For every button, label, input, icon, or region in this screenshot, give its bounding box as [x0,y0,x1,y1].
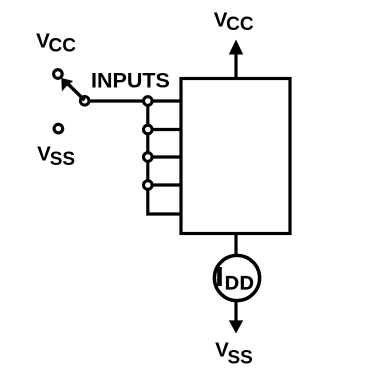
svg-text:I: I [216,262,223,292]
svg-text:SS: SS [228,348,253,369]
svg-text:CC: CC [49,36,77,57]
svg-text:SS: SS [50,149,75,170]
svg-text:INPUTS: INPUTS [91,68,170,92]
svg-text:CC: CC [226,14,254,35]
svg-text:DD: DD [225,272,255,294]
